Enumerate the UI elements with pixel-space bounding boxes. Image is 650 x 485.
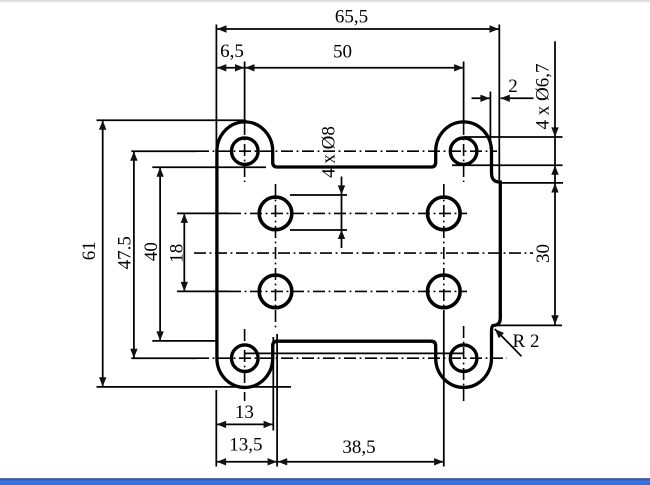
wire: centerline middle right column	[443, 184, 445, 313]
blue bottom bar	[0, 478, 650, 485]
arrowhead 30 bottom	[551, 315, 558, 324]
wire: extension line right hole column top	[463, 62, 465, 123]
hole TL corner	[232, 138, 259, 165]
arrowhead 13,5 right	[268, 458, 277, 465]
svg-text:30: 30	[533, 244, 554, 263]
wire: extension line right step (30 top)	[500, 182, 563, 184]
arrowhead 13 left	[217, 421, 226, 428]
arrowhead 13,5 left	[217, 458, 226, 465]
arrowhead 61 bottom	[99, 377, 106, 386]
arrowhead 38,5 left	[278, 458, 287, 465]
arrowhead 13 right	[264, 421, 273, 428]
wire: extension line bottom of plate (61)	[97, 386, 292, 388]
wire: extension line top hole row (47.5)	[131, 150, 197, 152]
wire: extension line bottom edge (40)	[152, 340, 216, 342]
wire: dimension 61 line	[102, 120, 104, 387]
wire: centerline BR hole vertical	[463, 326, 465, 401]
wire: centerline TL hole vertical	[244, 123, 246, 182]
svg-text:50: 50	[333, 42, 352, 63]
hole BL corner	[232, 345, 259, 372]
wire: centerline horizontal midline	[194, 252, 533, 254]
wire: dimension 6,5 line	[217, 67, 244, 69]
svg-text:2: 2	[508, 76, 518, 97]
hole middle bottom-left	[259, 275, 292, 308]
arrowhead 47.5 bottom	[130, 349, 137, 358]
wire: extension line right edge top	[498, 25, 500, 182]
wire: extension line O8 top tangent	[290, 194, 347, 196]
wire: dimension 2 line left tail	[472, 97, 490, 99]
wire: extension line middle row 1 (18)	[177, 212, 229, 214]
wire: dimension 47.5 line	[133, 151, 135, 358]
wire: extension line left hole column top	[244, 62, 246, 123]
wire: dimension 13 line	[217, 423, 273, 425]
wire: extension line middle row 2 (18)	[177, 290, 229, 292]
top window gradient	[0, 0, 650, 3]
wire: centerline TR hole vertical	[463, 123, 465, 182]
wire: extension line 13 right	[272, 337, 274, 431]
arrowhead 18 top	[181, 214, 188, 223]
hole middle top-right	[428, 197, 461, 230]
hole TR corner	[450, 138, 477, 165]
svg-text:38,5: 38,5	[342, 437, 375, 458]
wire: centerline top hole row	[197, 150, 497, 152]
arrowhead 2 left	[480, 95, 489, 102]
arrowhead O8 bottom	[338, 230, 345, 239]
arrowhead 40 bottom	[156, 331, 163, 340]
svg-text:40: 40	[141, 242, 162, 261]
wire: thin line between bottom hole centers	[245, 352, 464, 354]
wire: extension line O8 bottom tangent	[290, 229, 347, 231]
svg-text:13,5: 13,5	[229, 435, 262, 456]
arrowhead O8 top	[338, 185, 345, 194]
wire: dimension 50 line	[245, 67, 463, 69]
wire: centerline bottom hole row	[197, 357, 507, 359]
wire: dimension 2 line right tail	[501, 97, 534, 99]
wire: extension line top of plate (61)	[97, 119, 247, 121]
wire: right vertical dimension line (4xO6,7 and 30)	[554, 41, 556, 325]
arrowhead 18 bottom	[181, 282, 188, 291]
svg-text:13: 13	[235, 402, 254, 423]
arrowhead 47.5 top	[130, 151, 137, 160]
wire: dimension 40 line	[159, 167, 161, 341]
svg-text:4 x Ø6,7: 4 x Ø6,7	[533, 64, 554, 130]
svg-text:47.5: 47.5	[114, 236, 135, 269]
centerlines dash-dot	[194, 123, 533, 401]
arrowhead 6,5 left	[217, 64, 226, 71]
svg-text:R 2: R 2	[513, 331, 540, 352]
arrowhead 50 left	[245, 64, 254, 71]
wire: centerline middle row 2	[229, 290, 467, 292]
wire: extension line 38,5 right	[443, 311, 445, 467]
arrowhead 40 top	[156, 167, 163, 176]
svg-text:18: 18	[166, 244, 187, 263]
arrowhead 65,5 left	[217, 25, 226, 32]
wire: extension line 13,5 right	[276, 334, 278, 467]
arrowhead R 2 leader	[492, 326, 504, 338]
svg-text:65,5: 65,5	[335, 7, 368, 28]
wire: extension line left edge top	[215, 25, 217, 151]
wire: dimension 18 line	[183, 213, 185, 291]
arrowhead 38,5 right	[434, 458, 443, 465]
svg-text:61: 61	[79, 241, 100, 260]
arrowhead 6,5 right	[235, 64, 244, 71]
arrowhead 2 right	[501, 95, 510, 102]
wire: extension line hole bottom tangent (O6,7)	[452, 164, 563, 166]
wire: dimension 13,5 and 38,5 line	[217, 461, 444, 463]
wire: centerline BL hole vertical	[244, 329, 246, 401]
arrowhead 30 top	[551, 183, 558, 192]
svg-text:6,5: 6,5	[220, 41, 244, 62]
wire: centerline middle row 1	[229, 212, 467, 214]
wire: extension line hole top tangent (O6,7)	[464, 136, 563, 138]
wire: centerline middle left column	[275, 184, 277, 331]
arrowhead O6,7 top	[551, 127, 558, 136]
plate outline	[217, 122, 500, 388]
hole BR corner	[450, 345, 477, 372]
wire: 4xO8 vertical dimension line	[341, 177, 343, 249]
wire: extension line bottom hole row (47.5)	[131, 357, 197, 359]
wire: extension line left edge bottom	[215, 390, 217, 467]
arrowhead 65,5 right	[490, 25, 499, 32]
arrowhead O6,7 bottom	[551, 165, 558, 174]
wire: extension line top edge (40)	[152, 166, 266, 168]
arrowhead 50 right	[454, 64, 463, 71]
wire: extension line lobe right tangent (2 dim)	[489, 92, 491, 150]
wire: extension line notch (30 bottom)	[497, 324, 562, 326]
svg-text:4 x Ø8: 4 x Ø8	[319, 126, 340, 178]
wire: dimension 65,5 line	[217, 28, 499, 30]
wire: R 2 leader line	[495, 329, 522, 356]
hole middle bottom-right	[428, 275, 461, 308]
arrowhead 61 top	[99, 120, 106, 129]
hole middle top-left	[259, 197, 292, 230]
